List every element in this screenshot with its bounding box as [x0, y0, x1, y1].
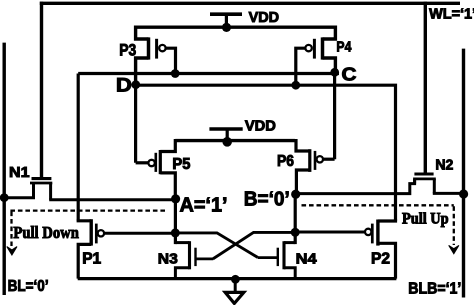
wire WL right drop to N2 gate — [424, 2, 427, 173]
wire VDD middle rail — [175, 139, 295, 142]
wire C left drop to P1 — [77, 74, 80, 221]
svg-text:P3: P3 — [119, 41, 136, 60]
svg-text:Pull Down: Pull Down — [13, 223, 79, 242]
transistor N3 — [175, 241, 213, 279]
svg-text:Pull Up: Pull Up — [402, 211, 449, 228]
svg-text:D: D — [116, 75, 132, 97]
wire D net drop to P5 gate — [134, 85, 137, 163]
transistor N1 — [30, 179, 52, 200]
wire node A vertical — [174, 199, 177, 244]
node BL junction — [0, 193, 9, 202]
svg-text:A=‘1’: A=‘1’ — [180, 193, 228, 216]
wire BL to N1 — [3, 196, 36, 199]
svg-text:N3: N3 — [158, 251, 178, 268]
wire N2 to BLB — [433, 192, 464, 195]
svg-text:P2: P2 — [371, 251, 390, 268]
node BLB junction — [459, 189, 468, 198]
node B-X junction — [291, 228, 300, 237]
wire cross-couple B to N3 gate — [213, 232, 295, 259]
wire node C rail — [78, 72, 339, 75]
svg-text:P1: P1 — [82, 250, 101, 267]
svg-text:P4: P4 — [336, 38, 351, 55]
annotation pull-up dashed line — [302, 204, 454, 206]
power VDD top symbol — [210, 14, 242, 32]
node P4 gate junction on D — [291, 81, 300, 90]
node C junction — [330, 68, 339, 77]
wire node B vertical — [294, 194, 297, 244]
annotation pull-up dashed arrow — [449, 206, 459, 254]
ground — [225, 275, 244, 304]
transistor N4 — [258, 241, 296, 279]
wire WL left drop to N1 gate — [40, 2, 43, 178]
svg-text:VDD: VDD — [245, 118, 276, 134]
transistor N2 — [413, 174, 436, 193]
transistor P5 — [136, 139, 176, 199]
svg-text:VDD: VDD — [249, 10, 280, 26]
node A junction — [171, 194, 180, 203]
svg-text:P6: P6 — [277, 153, 294, 170]
svg-text:N1: N1 — [9, 164, 30, 181]
transistor P1 — [78, 219, 175, 278]
svg-text:N2: N2 — [435, 157, 453, 174]
svg-text:BLB=‘1’: BLB=‘1’ — [408, 280, 461, 297]
transistor P3 — [136, 26, 176, 85]
wire cross-couple A to N4 gate — [175, 233, 257, 258]
node P3 gate junction on C — [171, 69, 180, 78]
wire node D rail — [136, 85, 396, 221]
wire C net drop to P6 gate — [333, 72, 336, 159]
svg-text:BL=‘0’: BL=‘0’ — [8, 278, 49, 295]
annotation pull-down dashed arrow — [7, 212, 17, 256]
wire node B to N2 — [296, 180, 415, 194]
svg-text:P5: P5 — [172, 156, 190, 173]
transistor P6 — [296, 139, 335, 194]
svg-text:N4: N4 — [296, 251, 318, 268]
node B junction — [291, 190, 300, 199]
transistor P2 — [295, 219, 395, 278]
wire VDD top rail — [136, 26, 336, 29]
transistor P4 — [296, 26, 336, 86]
wire BL vertical — [2, 43, 5, 295]
node D junction — [131, 80, 140, 89]
power VDD middle symbol — [209, 129, 242, 147]
wire BLB vertical — [462, 49, 465, 298]
wire ground rail — [78, 277, 397, 280]
wire N1 to node A — [49, 198, 175, 201]
svg-text:WL=‘1’: WL=‘1’ — [429, 6, 474, 23]
node A-X junction — [171, 228, 180, 237]
svg-text:B=‘0’: B=‘0’ — [244, 188, 290, 211]
wire WL top border — [40, 2, 460, 5]
annotation pull-down dashed line — [10, 209, 167, 211]
svg-text:C: C — [342, 64, 357, 84]
